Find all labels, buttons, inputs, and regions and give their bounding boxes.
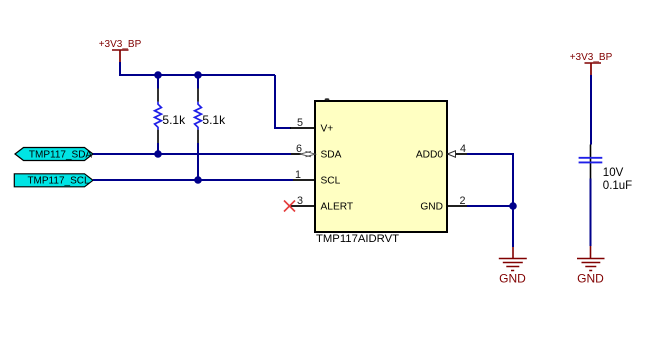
svg-text:0.1uF: 0.1uF: [603, 180, 632, 192]
svg-text:+3V3_BP: +3V3_BP: [99, 39, 142, 50]
wire: SCL net: [93, 179, 293, 181]
node junction GND net: [509, 202, 517, 210]
svg-text:TMP117AIDRVT: TMP117AIDRVT: [316, 233, 399, 245]
wire: power stem to rail: [120, 62, 275, 75]
wire: cap to ground: [590, 179, 592, 247]
wire: SDA net: [93, 153, 291, 155]
svg-text:GND: GND: [577, 272, 604, 286]
port TMP117_SCL: [14, 174, 93, 187]
svg-text:TMP117_SCL: TMP117_SCL: [27, 176, 90, 187]
svg-text:V+: V+: [321, 124, 334, 135]
svg-text:4: 4: [460, 143, 466, 155]
no-connect X on ALERT: [284, 201, 295, 212]
power symbol +3V3_BP (left): [99, 39, 142, 62]
svg-text:2: 2: [460, 195, 466, 207]
port TMP117_SDA: [15, 148, 93, 161]
svg-text:GND: GND: [420, 202, 443, 213]
pin 2 GND: [420, 195, 467, 213]
wire: ADD0 to GND net: [467, 154, 513, 206]
pin 5 V+: [290, 117, 333, 135]
svg-text:+3V3_BP: +3V3_BP: [570, 52, 613, 63]
svg-text:1: 1: [295, 169, 301, 181]
capacitor C1 0.1uF: [579, 145, 633, 193]
pin 1 SCL: [293, 169, 341, 187]
node junction SDA/R1: [154, 150, 162, 158]
node junction on rail (x=198): [194, 71, 202, 79]
resistor R1 5.1k: [155, 75, 186, 154]
ground GND (right): [577, 246, 605, 286]
svg-text:5: 5: [297, 117, 303, 129]
node junction on rail (x=158): [154, 71, 162, 79]
pin 3 ALERT: [290, 195, 353, 213]
wire: power to cap: [590, 75, 592, 145]
node junction SCL/R2: [194, 176, 202, 184]
wire: junction down to GND symbol: [512, 206, 514, 247]
ground GND (left): [499, 247, 527, 286]
pin 4 ADD0: [416, 143, 467, 161]
wire: rail down to V+ pin: [275, 75, 291, 128]
svg-text:SCL: SCL: [321, 176, 341, 187]
svg-text:SDA: SDA: [321, 150, 342, 161]
pin 6 SDA: [291, 143, 342, 161]
resistor R2 5.1k: [195, 75, 226, 154]
svg-text:ALERT: ALERT: [321, 202, 354, 213]
op IC U1 TMP117AIDRVT body: [315, 101, 447, 232]
svg-text:10V: 10V: [603, 167, 624, 179]
wire: pin2 to junction: [467, 205, 513, 207]
svg-text:3: 3: [297, 195, 303, 207]
svg-text:ADD0: ADD0: [416, 150, 444, 161]
artifact dot above IC: [325, 98, 330, 100]
power symbol +3V3_BP (right): [570, 52, 613, 75]
wire: R2 bottom to SCL: [197, 154, 199, 180]
svg-text:TMP117_SDA: TMP117_SDA: [29, 149, 93, 160]
svg-text:5.1k: 5.1k: [202, 113, 226, 127]
svg-text:5.1k: 5.1k: [162, 113, 186, 127]
svg-text:6: 6: [296, 143, 302, 155]
svg-text:GND: GND: [499, 272, 526, 286]
